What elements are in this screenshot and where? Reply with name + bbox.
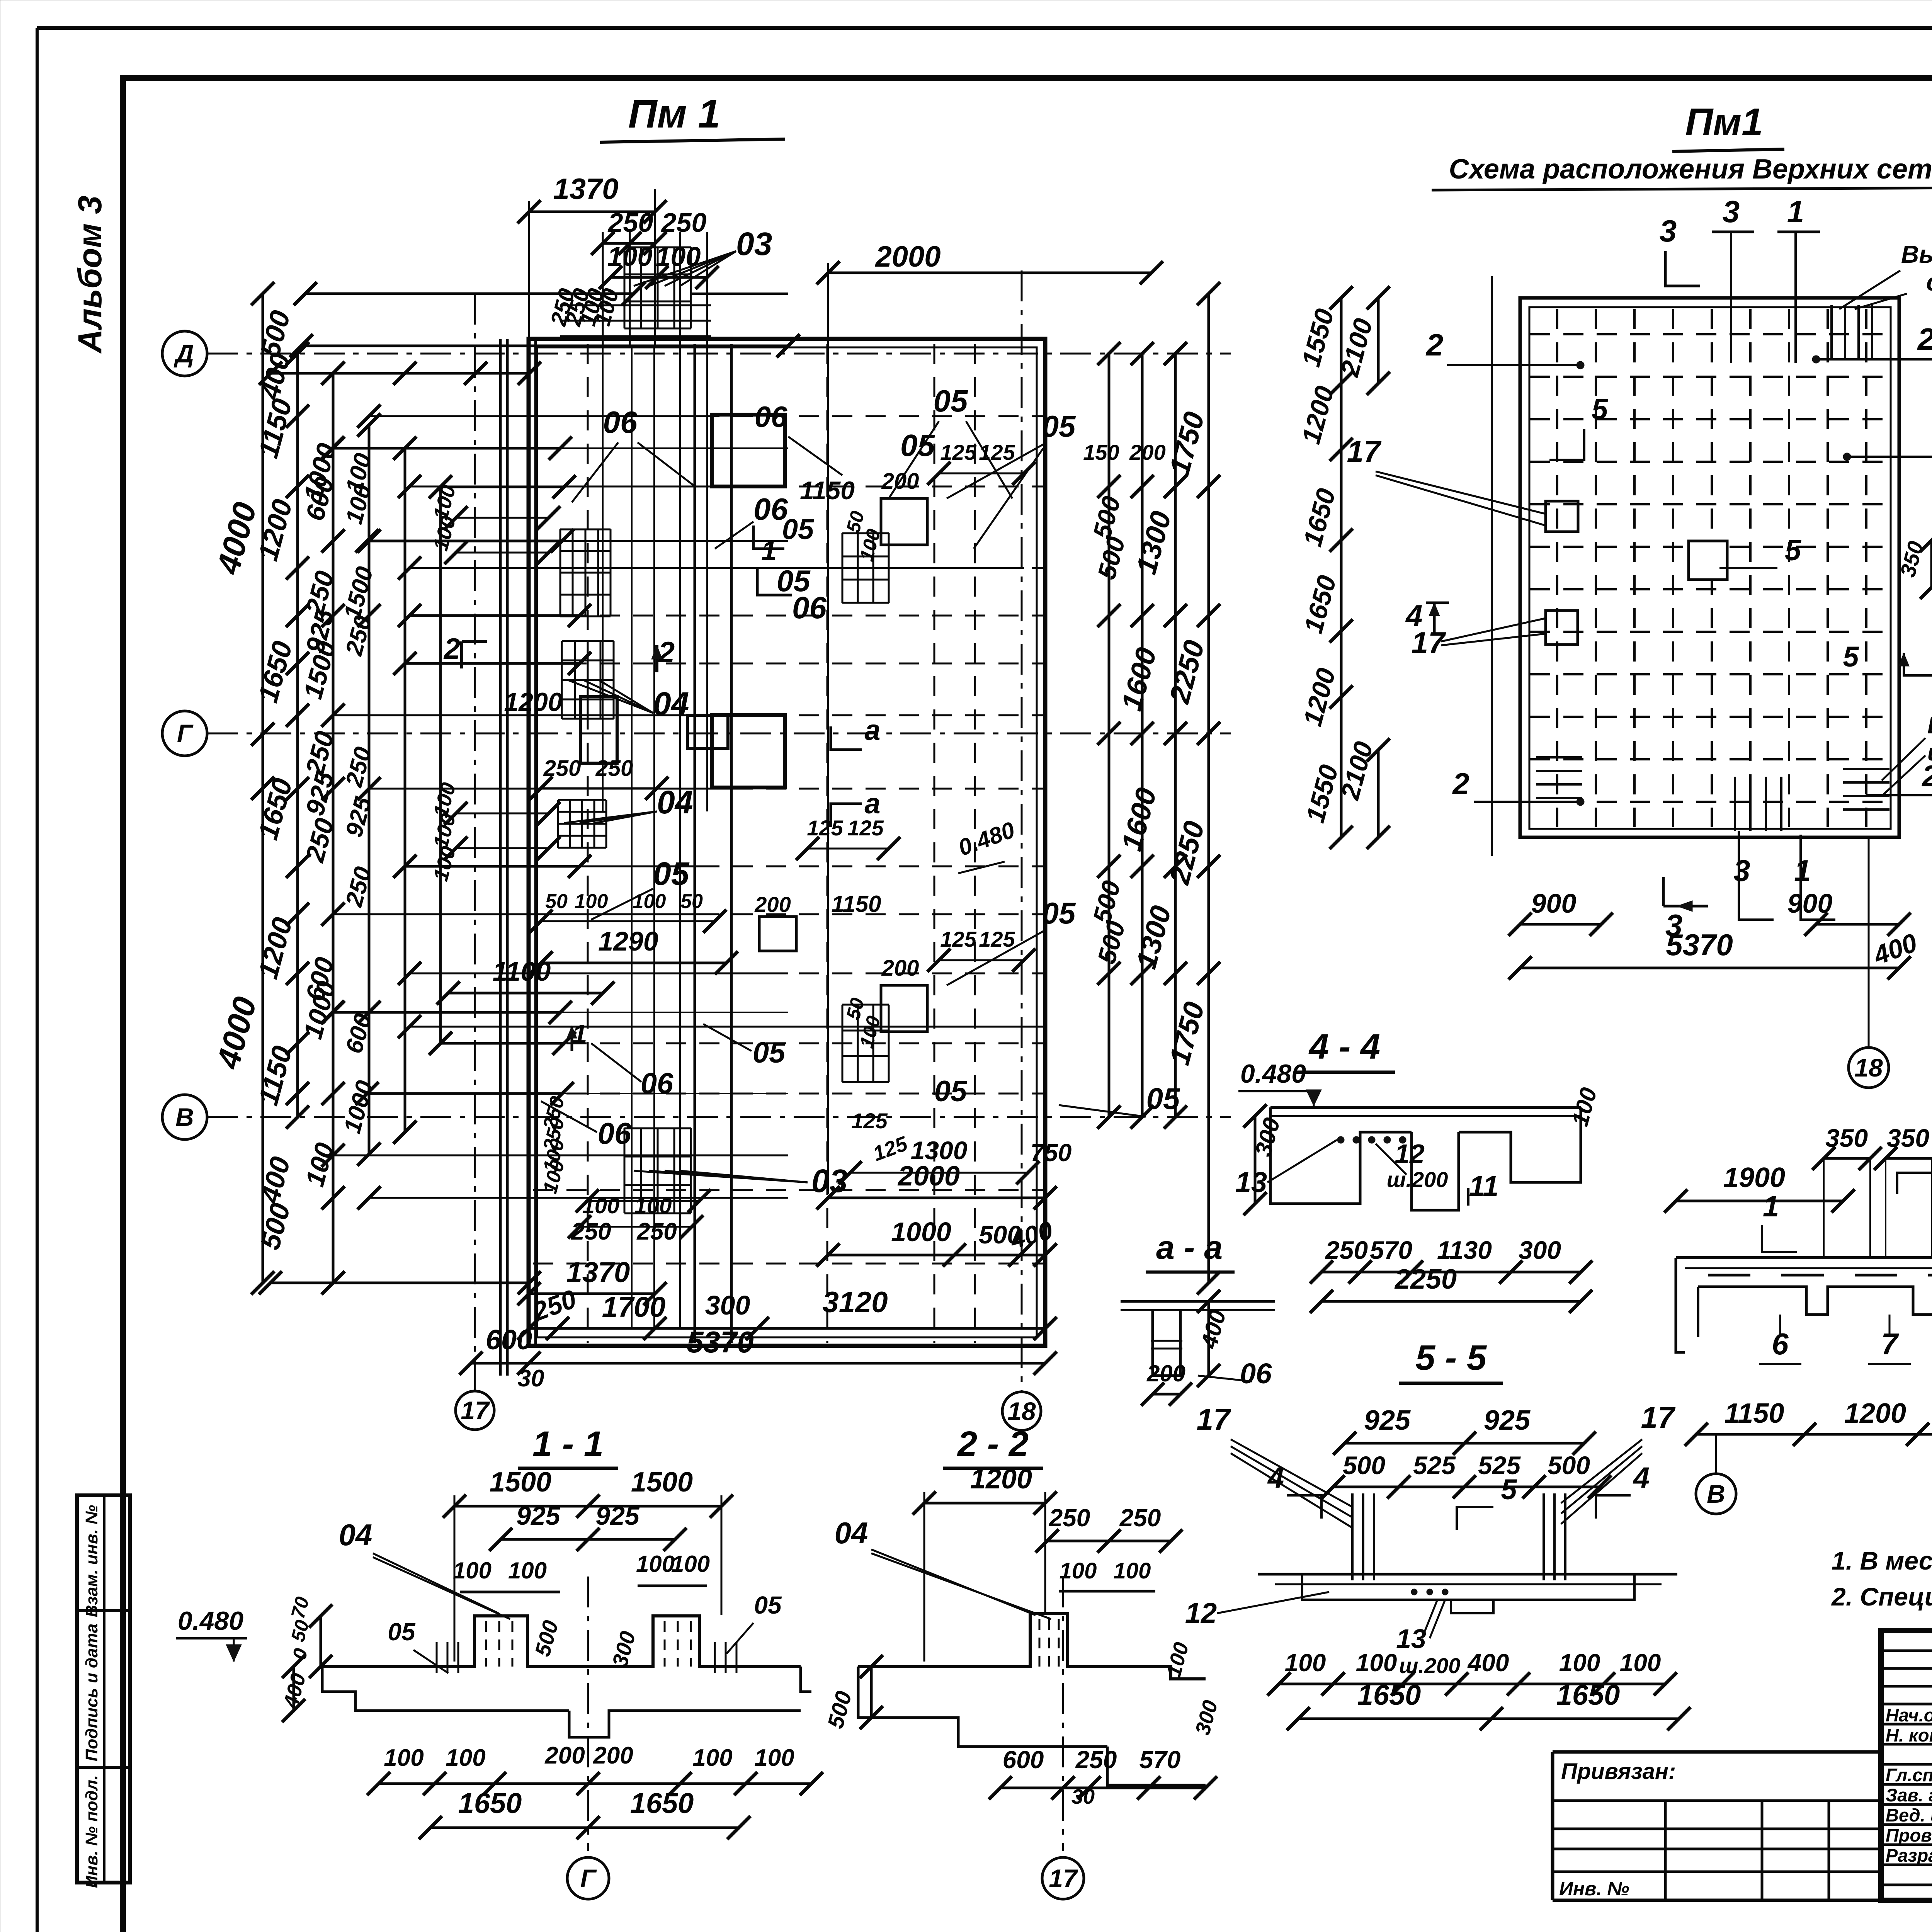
svg-text:100: 100 [1114, 1558, 1151, 1583]
svg-text:100: 100 [671, 1551, 710, 1577]
svg-text:06: 06 [755, 401, 787, 434]
svg-text:5: 5 [1592, 393, 1609, 426]
svg-text:100: 100 [692, 1745, 732, 1771]
section 5-5 slab body [1258, 1573, 1677, 1576]
svg-text:400: 400 [1467, 1649, 1509, 1677]
left dim vertical 4000 line [262, 294, 264, 788]
svg-text:0.480: 0.480 [1240, 1059, 1306, 1088]
svg-text:18: 18 [1854, 1053, 1883, 1082]
svg-text:В: В [1707, 1480, 1725, 1508]
left inner short dim stubs with double ticks [456, 517, 549, 519]
svg-text:900: 900 [1531, 888, 1577, 918]
svg-text:125: 125 [979, 927, 1015, 951]
svg-text:100: 100 [754, 1745, 794, 1771]
svg-text:500: 500 [1343, 1451, 1385, 1480]
svg-text:Нач.отд.: Нач.отд. [1886, 1705, 1932, 1725]
svg-text:2000: 2000 [897, 1161, 960, 1192]
left dim tick rows top [305, 293, 634, 295]
main plan inner contour offset [537, 347, 1037, 1337]
svg-text:5: 5 [1501, 1473, 1517, 1505]
stamp outer box [1881, 1631, 1932, 1900]
axis circle V [162, 1095, 207, 1139]
svg-text:5: 5 [1785, 534, 1802, 567]
left dim mid horizontals [332, 447, 560, 450]
stamp left extension columns [1664, 1801, 1667, 1900]
middle plan outer contour [1520, 298, 1899, 837]
svg-text:100: 100 [1285, 1649, 1326, 1677]
svg-text:05: 05 [1146, 1082, 1180, 1116]
svg-text:2 - 2: 2 - 2 [957, 1424, 1029, 1464]
outer sheet trim line top [37, 26, 1932, 30]
section 1-1 profile [322, 1616, 801, 1667]
svg-text:03: 03 [736, 226, 772, 262]
section 4-4 rebar dots [1337, 1136, 1344, 1143]
axis line 18 vertical [1021, 270, 1023, 1392]
main plan internal dashed verticals [587, 344, 589, 1343]
svg-text:100: 100 [1060, 1558, 1097, 1583]
svg-text:1: 1 [1794, 854, 1811, 888]
section 2-2 axis circle 17 [1042, 1857, 1084, 1899]
svg-text:100: 100 [575, 890, 608, 913]
svg-text:100: 100 [634, 1193, 672, 1218]
svg-text:525: 525 [1413, 1451, 1456, 1480]
svg-text:Схема расположения Верхн: Схема расположения Верхних сеток [1449, 154, 1932, 185]
svg-text:250: 250 [1049, 1504, 1090, 1532]
rebar bars right half bottom 05 cluster [842, 1005, 844, 1082]
svg-text:Провер.: Провер. [1886, 1825, 1932, 1845]
outer sheet trim line left [36, 28, 39, 1932]
svg-text:1200: 1200 [970, 1464, 1032, 1495]
svg-text:1150: 1150 [831, 891, 881, 917]
svg-text:13: 13 [1396, 1624, 1426, 1654]
svg-text:150: 150 [1083, 440, 1119, 464]
section a-a web [1153, 1310, 1180, 1376]
svg-text:Зав. гр.: Зав. гр. [1886, 1785, 1932, 1805]
left ladder long horizontals [369, 415, 715, 417]
svg-text:1370: 1370 [553, 173, 618, 206]
svg-text:100: 100 [446, 1745, 485, 1771]
svg-text:925: 925 [1364, 1405, 1411, 1436]
section 1-1 small mesh hooks left of upstand [436, 1642, 438, 1673]
svg-text:1500: 1500 [490, 1467, 551, 1498]
axis circle 18 main plan [1002, 1392, 1041, 1430]
svg-text:Пм 1: Пм 1 [628, 92, 720, 136]
axis circle 17 main plan [456, 1391, 494, 1430]
section 2-2 upstand mesh bars [1039, 1619, 1041, 1667]
svg-text:925: 925 [1484, 1405, 1531, 1436]
svg-text:350: 350 [1825, 1124, 1868, 1152]
svg-text:100: 100 [384, 1745, 423, 1771]
section a-a flange [1121, 1300, 1275, 1303]
stamp left extension rows [1553, 1799, 1881, 1802]
svg-text:05: 05 [934, 1075, 968, 1108]
section 3-3 axis circle V [1696, 1474, 1736, 1514]
svg-text:06: 06 [641, 1067, 673, 1100]
svg-text:4: 4 [1633, 1461, 1650, 1494]
svg-text:1650: 1650 [630, 1787, 694, 1819]
section 3-3 slab top lines [1676, 1256, 1932, 1259]
svg-text:2: 2 [1917, 322, 1932, 356]
svg-text:1290: 1290 [598, 926, 658, 956]
svg-text:1370: 1370 [566, 1256, 630, 1288]
left dim vertical 4000 line lower [262, 788, 264, 1283]
vypuski bars left lower middle plan [1536, 756, 1582, 759]
svg-text:200: 200 [1129, 440, 1165, 464]
svg-text:4: 4 [1267, 1461, 1284, 1494]
svg-text:100: 100 [582, 1193, 620, 1218]
svg-text:2: 2 [1425, 328, 1444, 362]
svg-text:1300: 1300 [911, 1136, 968, 1165]
right dim chain verticals [1108, 354, 1111, 1117]
svg-text:2: 2 [1452, 767, 1469, 801]
svg-text:125: 125 [851, 1109, 888, 1133]
svg-text:1500: 1500 [631, 1467, 693, 1498]
main plan outer contour [529, 339, 1045, 1346]
svg-text:1: 1 [1787, 194, 1804, 229]
middle plan stirrup square 17 upper [1546, 501, 1578, 532]
svg-text:300: 300 [1519, 1236, 1561, 1264]
svg-text:13: 13 [1235, 1166, 1267, 1198]
section 3-3 extension verticals [1823, 1158, 1825, 1258]
svg-text:04: 04 [653, 685, 689, 722]
svg-text:100: 100 [1559, 1649, 1600, 1677]
section 4-4 right portion [1459, 1107, 1581, 1182]
svg-text:125: 125 [979, 440, 1015, 464]
svg-text:30: 30 [1071, 1785, 1095, 1808]
svg-text:Разраб.: Разраб. [1886, 1845, 1932, 1866]
svg-text:5370: 5370 [1666, 928, 1733, 962]
leader fan to label 03 top [634, 251, 736, 286]
square opening bottom right [712, 715, 785, 787]
svg-text:05: 05 [1042, 409, 1076, 443]
top long dim lines [305, 293, 634, 295]
middle plan stirrup square 17 lower [1546, 611, 1578, 645]
section 5-5 center notch [1451, 1600, 1493, 1613]
svg-text:100: 100 [1620, 1649, 1661, 1677]
svg-text:100: 100 [636, 1551, 675, 1577]
svg-text:1130: 1130 [1437, 1236, 1492, 1264]
svg-text:50: 50 [545, 890, 568, 913]
leader fan to label 03 bottom [634, 1171, 808, 1182]
svg-text:17: 17 [461, 1396, 490, 1425]
svg-text:05: 05 [754, 1591, 782, 1619]
svg-text:100: 100 [656, 241, 701, 272]
svg-text:3120: 3120 [822, 1286, 888, 1319]
middle plan dashed horizontals [1530, 333, 1889, 335]
main plan internal dashed horizontals [533, 415, 1043, 417]
top cluster horizontal bars [560, 304, 711, 306]
svg-text:5 - 5: 5 - 5 [1415, 1338, 1487, 1378]
svg-text:17: 17 [1049, 1864, 1078, 1893]
svg-text:05: 05 [753, 1036, 786, 1069]
svg-text:Гл.спец.: Гл.спец. [1886, 1765, 1932, 1785]
svg-text:3: 3 [1723, 194, 1740, 229]
svg-text:Вед. инж.: Вед. инж. [1886, 1805, 1932, 1825]
svg-text:05: 05 [934, 384, 968, 418]
svg-text:1 - 1: 1 - 1 [532, 1424, 604, 1464]
left dim chain verticals [296, 354, 299, 1117]
svg-text:250: 250 [543, 756, 581, 781]
svg-text:18: 18 [1007, 1397, 1036, 1425]
svg-text:125: 125 [940, 927, 976, 951]
axis line D [207, 353, 1231, 355]
middle plan dashed verticals [1556, 309, 1558, 827]
square opening top right [712, 415, 785, 486]
svg-text:Г: Г [580, 1864, 597, 1893]
main plan central rib solid verticals [694, 344, 696, 1343]
svg-text:125: 125 [807, 816, 843, 840]
svg-text:17: 17 [1197, 1402, 1231, 1436]
svg-text:Выпуски из: Выпуски из [1901, 240, 1932, 268]
opening at axis G left [580, 697, 617, 763]
svg-text:2: 2 [443, 633, 460, 665]
svg-text:1650: 1650 [458, 1787, 522, 1819]
svg-text:1000: 1000 [891, 1217, 951, 1247]
axis line G [207, 733, 1231, 735]
svg-text:50: 50 [680, 890, 703, 913]
svg-text:600: 600 [486, 1325, 532, 1355]
stamp horizontal rows left part [1881, 1650, 1932, 1652]
rebar bars right half top 05 cluster [842, 533, 844, 603]
svg-text:1900: 1900 [1723, 1162, 1785, 1193]
svg-text:11: 11 [1469, 1170, 1499, 1202]
svg-text:Г: Г [177, 719, 194, 748]
svg-text:3: 3 [1660, 214, 1677, 248]
svg-text:1700: 1700 [602, 1291, 666, 1323]
svg-text:2. Спецификацию и ведомость: 2. Спецификацию и ведомость расхода стал… [1831, 1582, 1932, 1611]
svg-text:925: 925 [595, 1501, 640, 1531]
svg-text:4 - 4: 4 - 4 [1308, 1027, 1380, 1066]
svg-text:Инв. № подл.: Инв. № подл. [82, 1775, 101, 1888]
svg-text:1200: 1200 [504, 687, 562, 717]
plan interior thin horizontal extension lines [537, 447, 788, 449]
svg-text:a - a: a - a [1156, 1229, 1223, 1266]
svg-text:Взам. инв. №: Взам. инв. № [82, 1505, 101, 1617]
svg-text:1150: 1150 [800, 476, 855, 505]
svg-text:1: 1 [1763, 1190, 1779, 1223]
svg-text:1. В местах отверстий армату: 1. В местах отверстий арматуру сеток выр… [1832, 1546, 1932, 1575]
small rect box 200 at lower rib [759, 917, 796, 951]
axis line V [207, 1116, 1231, 1118]
svg-text:1100: 1100 [493, 956, 551, 986]
svg-text:Инв. №: Инв. № [1559, 1878, 1629, 1900]
svg-text:200: 200 [881, 956, 919, 981]
svg-text:В: В [175, 1103, 194, 1131]
section 5-5 mesh bars left [1351, 1493, 1354, 1580]
svg-text:30: 30 [518, 1365, 544, 1392]
svg-text:04: 04 [835, 1516, 868, 1550]
svg-text:350: 350 [1887, 1124, 1929, 1152]
section 1-1 upstand mesh bars right [664, 1621, 666, 1667]
vypuski bars right lower middle plan [1843, 768, 1889, 770]
svg-text:1200: 1200 [1844, 1398, 1906, 1429]
svg-text:Привязан:: Привязан: [1561, 1759, 1676, 1784]
section 3-3 top dim ticks [1824, 1157, 1870, 1160]
main plan wall strip double lines [499, 339, 502, 1376]
svg-text:стен: стен [1926, 268, 1932, 296]
svg-text:2: 2 [1921, 759, 1932, 793]
svg-text:570: 570 [1370, 1236, 1412, 1264]
section 3-3 left end hook [1676, 1258, 1685, 1352]
section 1-1 left dim verticals [320, 1616, 322, 1667]
svg-text:5: 5 [1843, 641, 1859, 673]
svg-text:250: 250 [1119, 1504, 1161, 1532]
svg-text:05: 05 [782, 513, 815, 545]
svg-text:100: 100 [633, 890, 666, 913]
svg-text:05: 05 [388, 1618, 416, 1646]
svg-text:925: 925 [516, 1501, 561, 1531]
svg-text:06: 06 [603, 405, 638, 439]
rebar mesh cluster left mid 05 [560, 529, 561, 616]
section 2-2 axis line 17 vertical [1062, 1577, 1064, 1851]
svg-text:200: 200 [754, 892, 791, 917]
svg-text:a: a [864, 787, 880, 820]
svg-text:17: 17 [1641, 1400, 1676, 1434]
vypuski bars top right middle plan [1830, 305, 1833, 359]
plan interior thin vertical extension lines [631, 348, 633, 1329]
section 1-1 small mesh hooks right upstand side [714, 1642, 716, 1673]
rebar mesh cluster left G 04 [561, 641, 563, 719]
svg-text:125: 125 [940, 440, 976, 464]
small rect boxes with 200 label upper [881, 498, 927, 545]
svg-text:05: 05 [653, 855, 690, 892]
svg-text:Выпуски: Выпуски [1927, 712, 1932, 739]
rebar mesh cluster bottom center 03 [624, 1128, 626, 1213]
svg-text:200: 200 [881, 469, 919, 494]
svg-text:1: 1 [761, 536, 777, 566]
middle plan inner contour [1529, 307, 1891, 829]
svg-text:06: 06 [1240, 1357, 1272, 1389]
svg-text:300: 300 [705, 1290, 750, 1320]
svg-text:500: 500 [1548, 1451, 1590, 1480]
svg-text:2: 2 [658, 636, 675, 669]
axis circle G [162, 711, 207, 756]
section 5-5 mesh bars right [1543, 1493, 1545, 1580]
svg-text:5370: 5370 [687, 1325, 754, 1359]
section 3-3 slab bottom with ribs [1698, 1287, 1932, 1315]
svg-text:200: 200 [1146, 1361, 1185, 1386]
axis line 17 vertical [474, 294, 476, 1391]
svg-text:1650: 1650 [1357, 1679, 1421, 1711]
middle plan flag 4 up arrow [1426, 602, 1449, 604]
svg-text:12: 12 [1185, 1597, 1217, 1629]
section 1-1 upstand mesh bars left [485, 1621, 487, 1667]
svg-text:1150: 1150 [1725, 1398, 1784, 1429]
central opening 400x400 [687, 715, 728, 748]
top cluster extension verticals [602, 232, 604, 348]
middle plan left dim chain inner [1377, 298, 1380, 383]
svg-text:570: 570 [1139, 1746, 1181, 1774]
svg-text:Пм1: Пм1 [1685, 100, 1763, 144]
section 3-3 top mesh dashes [1708, 1274, 1750, 1277]
svg-text:Подпись и дата: Подпись и дата [82, 1624, 101, 1762]
rebar mesh cluster top center 03 [624, 247, 626, 328]
axis circle D [162, 331, 207, 376]
svg-text:250: 250 [595, 756, 633, 781]
svg-text:0.480: 0.480 [178, 1606, 243, 1636]
svg-text:17: 17 [1412, 626, 1446, 660]
section 2-2 profile [858, 1614, 1206, 1679]
section 5-5 rebar dots bottom [1411, 1589, 1417, 1595]
middle plan axis circle 18 [1849, 1048, 1889, 1088]
middle plan bottom flag 3 with arrow [1662, 877, 1665, 906]
svg-text:2250: 2250 [1394, 1264, 1457, 1295]
svg-text:Альбом 3: Альбом 3 [71, 196, 109, 354]
svg-text:05: 05 [1042, 896, 1076, 930]
section 4-4 middle rib [1412, 1132, 1459, 1210]
svg-text:750: 750 [1031, 1139, 1072, 1167]
svg-text:250: 250 [1075, 1746, 1117, 1774]
svg-text:ш.200: ш.200 [1399, 1653, 1461, 1678]
left margin vertical table [77, 1495, 130, 1883]
svg-text:100: 100 [1356, 1649, 1397, 1677]
svg-text:3: 3 [1733, 854, 1750, 888]
svg-text:1650: 1650 [1556, 1679, 1620, 1711]
svg-text:Д: Д [173, 339, 194, 368]
svg-text:100: 100 [453, 1558, 492, 1583]
section 1-1 axis circle G [567, 1857, 609, 1899]
middle plan center cross opening [1689, 541, 1727, 580]
middle plan left dim chain outer [1340, 298, 1343, 837]
svg-text:04: 04 [339, 1518, 372, 1552]
svg-text:Н. контр.: Н. контр. [1886, 1725, 1932, 1745]
svg-text:600: 600 [1003, 1746, 1044, 1774]
section 4-4 slab top [1270, 1106, 1581, 1109]
svg-text:06: 06 [598, 1116, 631, 1150]
svg-text:ш.200: ш.200 [1387, 1167, 1448, 1192]
svg-text:2000: 2000 [874, 240, 940, 273]
section 4-4 left block [1270, 1107, 1412, 1204]
small rect boxes with 200 label lower [881, 985, 927, 1032]
middle plan axis line vertical [1491, 276, 1493, 856]
svg-text:12: 12 [1395, 1139, 1425, 1169]
svg-text:250: 250 [636, 1218, 677, 1245]
svg-text:100: 100 [508, 1558, 547, 1583]
svg-text:200: 200 [593, 1742, 633, 1769]
rebar mesh cluster below G 04 [557, 800, 559, 848]
svg-text:a: a [864, 714, 880, 746]
section 1-1 axis line G vertical [587, 1577, 589, 1851]
vypuski bars bottom middle plan [1734, 777, 1736, 831]
stamp left extension privyazan box [1553, 1750, 1881, 1754]
svg-text:200: 200 [544, 1742, 585, 1769]
